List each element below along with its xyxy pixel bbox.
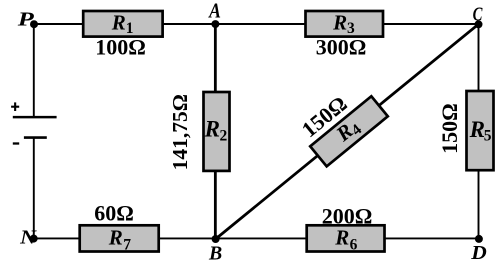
svg-text:141,75Ω: 141,75Ω (168, 94, 192, 170)
svg-text:R: R (111, 11, 126, 35)
wire A-B (214, 24, 217, 239)
wire B-C diagonal (216, 24, 479, 239)
resistor R5 (467, 91, 494, 170)
node C (475, 20, 483, 28)
svg-text:A: A (207, 0, 220, 23)
svg-text:C: C (473, 3, 483, 25)
svg-text:B: B (208, 243, 222, 264)
svg-text:P: P (16, 8, 34, 30)
svg-text:N: N (19, 227, 38, 249)
svg-text:60Ω: 60Ω (94, 200, 134, 225)
svg-text:5: 5 (484, 128, 492, 145)
node B (212, 235, 220, 243)
svg-text:R: R (334, 226, 349, 250)
node N (30, 235, 38, 243)
svg-text:R: R (204, 117, 220, 142)
svg-text:2: 2 (220, 128, 228, 145)
battery positive plate (13, 116, 57, 119)
svg-text:300Ω: 300Ω (316, 35, 367, 60)
node D (475, 235, 483, 243)
resistor R2 (204, 92, 230, 171)
svg-text:D: D (470, 242, 487, 264)
svg-text:150Ω: 150Ω (437, 103, 462, 154)
wire N-B-D (bottom rail) (34, 237, 479, 239)
resistor R7 (80, 225, 159, 251)
node P (30, 20, 38, 28)
resistor R3 (306, 11, 384, 37)
resistor R6 (307, 225, 385, 251)
node A (211, 20, 219, 28)
svg-text:7: 7 (123, 236, 131, 253)
wire battery to N (33, 138, 35, 239)
svg-text:R: R (108, 226, 123, 250)
wire P to battery (33, 24, 35, 117)
wire C-D (right rail) (478, 24, 480, 238)
resistor R4 (rotated) (310, 95, 388, 166)
svg-text:R: R (332, 11, 347, 35)
wire P-A-C (top rail) (34, 23, 479, 25)
svg-text:R: R (469, 117, 485, 142)
svg-text:200Ω: 200Ω (322, 204, 373, 229)
battery negative plate (24, 136, 47, 139)
battery minus sign (13, 142, 19, 144)
resistor R1 (83, 11, 162, 37)
svg-text:100Ω: 100Ω (95, 35, 146, 60)
svg-text:6: 6 (350, 236, 358, 253)
battery plus sign (11, 102, 19, 111)
